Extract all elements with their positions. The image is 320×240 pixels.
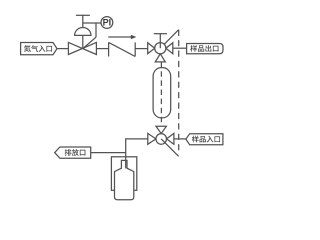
wire: drain to bottle tee: [91, 152, 126, 154]
3-way valve V2 left port triangle: [148, 43, 155, 54]
3-way valve V2 T-handle: [154, 33, 167, 35]
3-way valve V2 ball: [155, 43, 166, 54]
control valve V1 stem: [82, 35, 84, 48]
wire: valve center to gauge PI (diagonal): [83, 37, 96, 48]
flow restrictor device (slope symbol): [108, 42, 110, 56]
wire: inlet to control valve: [57, 48, 68, 50]
sample cylinder centerline (dashed): [160, 62, 162, 126]
svg-text:PI: PI: [103, 18, 112, 28]
dip tube into bottle: [125, 160, 127, 168]
wire: flow device to 3-way valve V2: [135, 48, 148, 50]
pressure gauge PI: [101, 17, 113, 29]
label box: sample outlet 样品出口: [187, 44, 223, 54]
wire: control valve to flow device: [96, 48, 108, 50]
3-way valve V2 right port triangle: [166, 43, 173, 54]
3-way valve V3 ball: [156, 134, 167, 145]
label flag: drain port 排放口: [55, 147, 91, 158]
control valve V1 upper stem: [82, 15, 84, 27]
label flag: nitrogen inlet 氮气入口: [21, 43, 57, 55]
3-way valve V3 top port triangle: [156, 126, 166, 133]
3-way valve V2 bottom port triangle: [155, 54, 165, 62]
control valve V1 diaphragm actuator dome: [75, 28, 91, 36]
collection bottle: [115, 160, 134, 199]
3-way valve V2 port mark: [159, 43, 161, 49]
wire: valve V3 to sample inlet: [174, 138, 186, 140]
3-way valve V3 right port triangle: [167, 133, 174, 144]
wire: valve V2 to sample outlet: [173, 47, 187, 49]
3-way valve V3 left port triangle: [148, 133, 156, 144]
wire: valve V3 to drain elbow: [126, 139, 148, 168]
sample cylinder vessel: [153, 68, 171, 118]
3-way valve V2 lever to link: [164, 30, 178, 45]
label flag: sample inlet 样品入口: [186, 134, 223, 145]
flow direction arrow: [108, 36, 132, 38]
mechanical link (dashed) between valves: [178, 30, 180, 154]
3-way valve V3 lever to link: [161, 139, 178, 156]
control valve V1 handle T-bar: [76, 14, 90, 16]
3-way valve V2 stem: [159, 34, 161, 43]
wire: stem to gauge PI: [83, 22, 102, 24]
control valve V1 body (globe valve bowtie): [68, 42, 96, 54]
bottle holder rectangle: [111, 157, 136, 191]
